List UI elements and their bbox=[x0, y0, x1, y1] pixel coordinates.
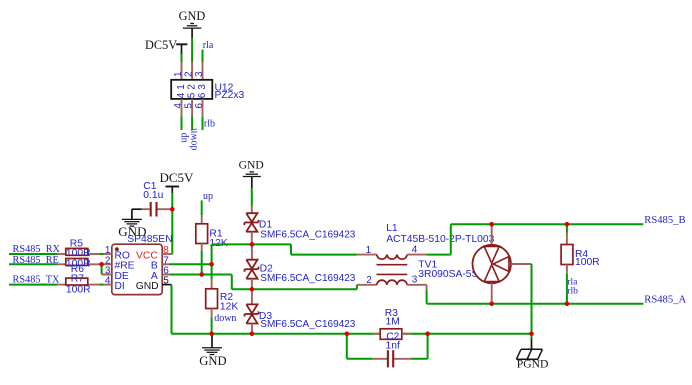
svg-text:4: 4 bbox=[173, 103, 184, 109]
svg-text:4: 4 bbox=[412, 244, 418, 255]
svg-text:4: 4 bbox=[176, 92, 187, 98]
svg-text:GND: GND bbox=[199, 354, 226, 368]
svg-text:RS485_B: RS485_B bbox=[644, 215, 685, 226]
svg-text:PZ2x3: PZ2x3 bbox=[215, 90, 245, 101]
svg-text:6: 6 bbox=[194, 103, 205, 109]
svg-text:100R: 100R bbox=[575, 257, 600, 268]
svg-text:SMF6.5CA_C169423: SMF6.5CA_C169423 bbox=[260, 230, 355, 241]
svg-text:R7: R7 bbox=[71, 274, 84, 285]
svg-text:ACT45B-510-2P-TL003: ACT45B-510-2P-TL003 bbox=[386, 234, 494, 245]
svg-text:5: 5 bbox=[184, 103, 195, 109]
svg-text:5: 5 bbox=[187, 92, 198, 98]
svg-text:2: 2 bbox=[187, 84, 198, 90]
svg-text:up: up bbox=[203, 191, 213, 202]
svg-text:3: 3 bbox=[197, 84, 208, 90]
svg-text:4: 4 bbox=[105, 276, 111, 287]
svg-text:RS485_A: RS485_A bbox=[644, 295, 686, 306]
svg-text:down: down bbox=[189, 128, 200, 150]
svg-text:GND: GND bbox=[239, 159, 264, 172]
svg-text:rlb: rlb bbox=[567, 285, 578, 296]
svg-text:12K: 12K bbox=[220, 302, 238, 313]
svg-text:GND: GND bbox=[179, 9, 206, 23]
svg-text:PGND: PGND bbox=[517, 358, 549, 371]
svg-text:down: down bbox=[214, 313, 236, 324]
svg-text:SMF6.5CA_C169423: SMF6.5CA_C169423 bbox=[260, 319, 355, 330]
svg-text:2: 2 bbox=[366, 275, 372, 286]
svg-text:1: 1 bbox=[176, 84, 187, 90]
svg-text:3: 3 bbox=[412, 275, 418, 286]
svg-text:2: 2 bbox=[184, 71, 195, 77]
svg-text:6: 6 bbox=[197, 92, 208, 98]
svg-text:SMF6.5CA_C169423: SMF6.5CA_C169423 bbox=[260, 273, 355, 284]
svg-text:rla: rla bbox=[203, 40, 214, 51]
svg-text:1: 1 bbox=[173, 71, 184, 77]
svg-text:100R: 100R bbox=[66, 284, 91, 295]
svg-text:DI: DI bbox=[115, 281, 125, 292]
svg-text:DC5V: DC5V bbox=[145, 38, 177, 52]
svg-text:1M: 1M bbox=[386, 317, 400, 328]
svg-text:L1: L1 bbox=[386, 223, 398, 234]
svg-text:0.1u: 0.1u bbox=[143, 190, 163, 201]
svg-text:rlb: rlb bbox=[204, 118, 215, 129]
svg-text:1: 1 bbox=[366, 245, 372, 256]
svg-text:GND: GND bbox=[136, 281, 159, 292]
svg-text:3R090SA-5S: 3R090SA-5S bbox=[418, 269, 478, 280]
svg-text:DC5V: DC5V bbox=[160, 170, 195, 185]
svg-text:1nf: 1nf bbox=[386, 341, 400, 352]
svg-text:3: 3 bbox=[194, 71, 205, 77]
